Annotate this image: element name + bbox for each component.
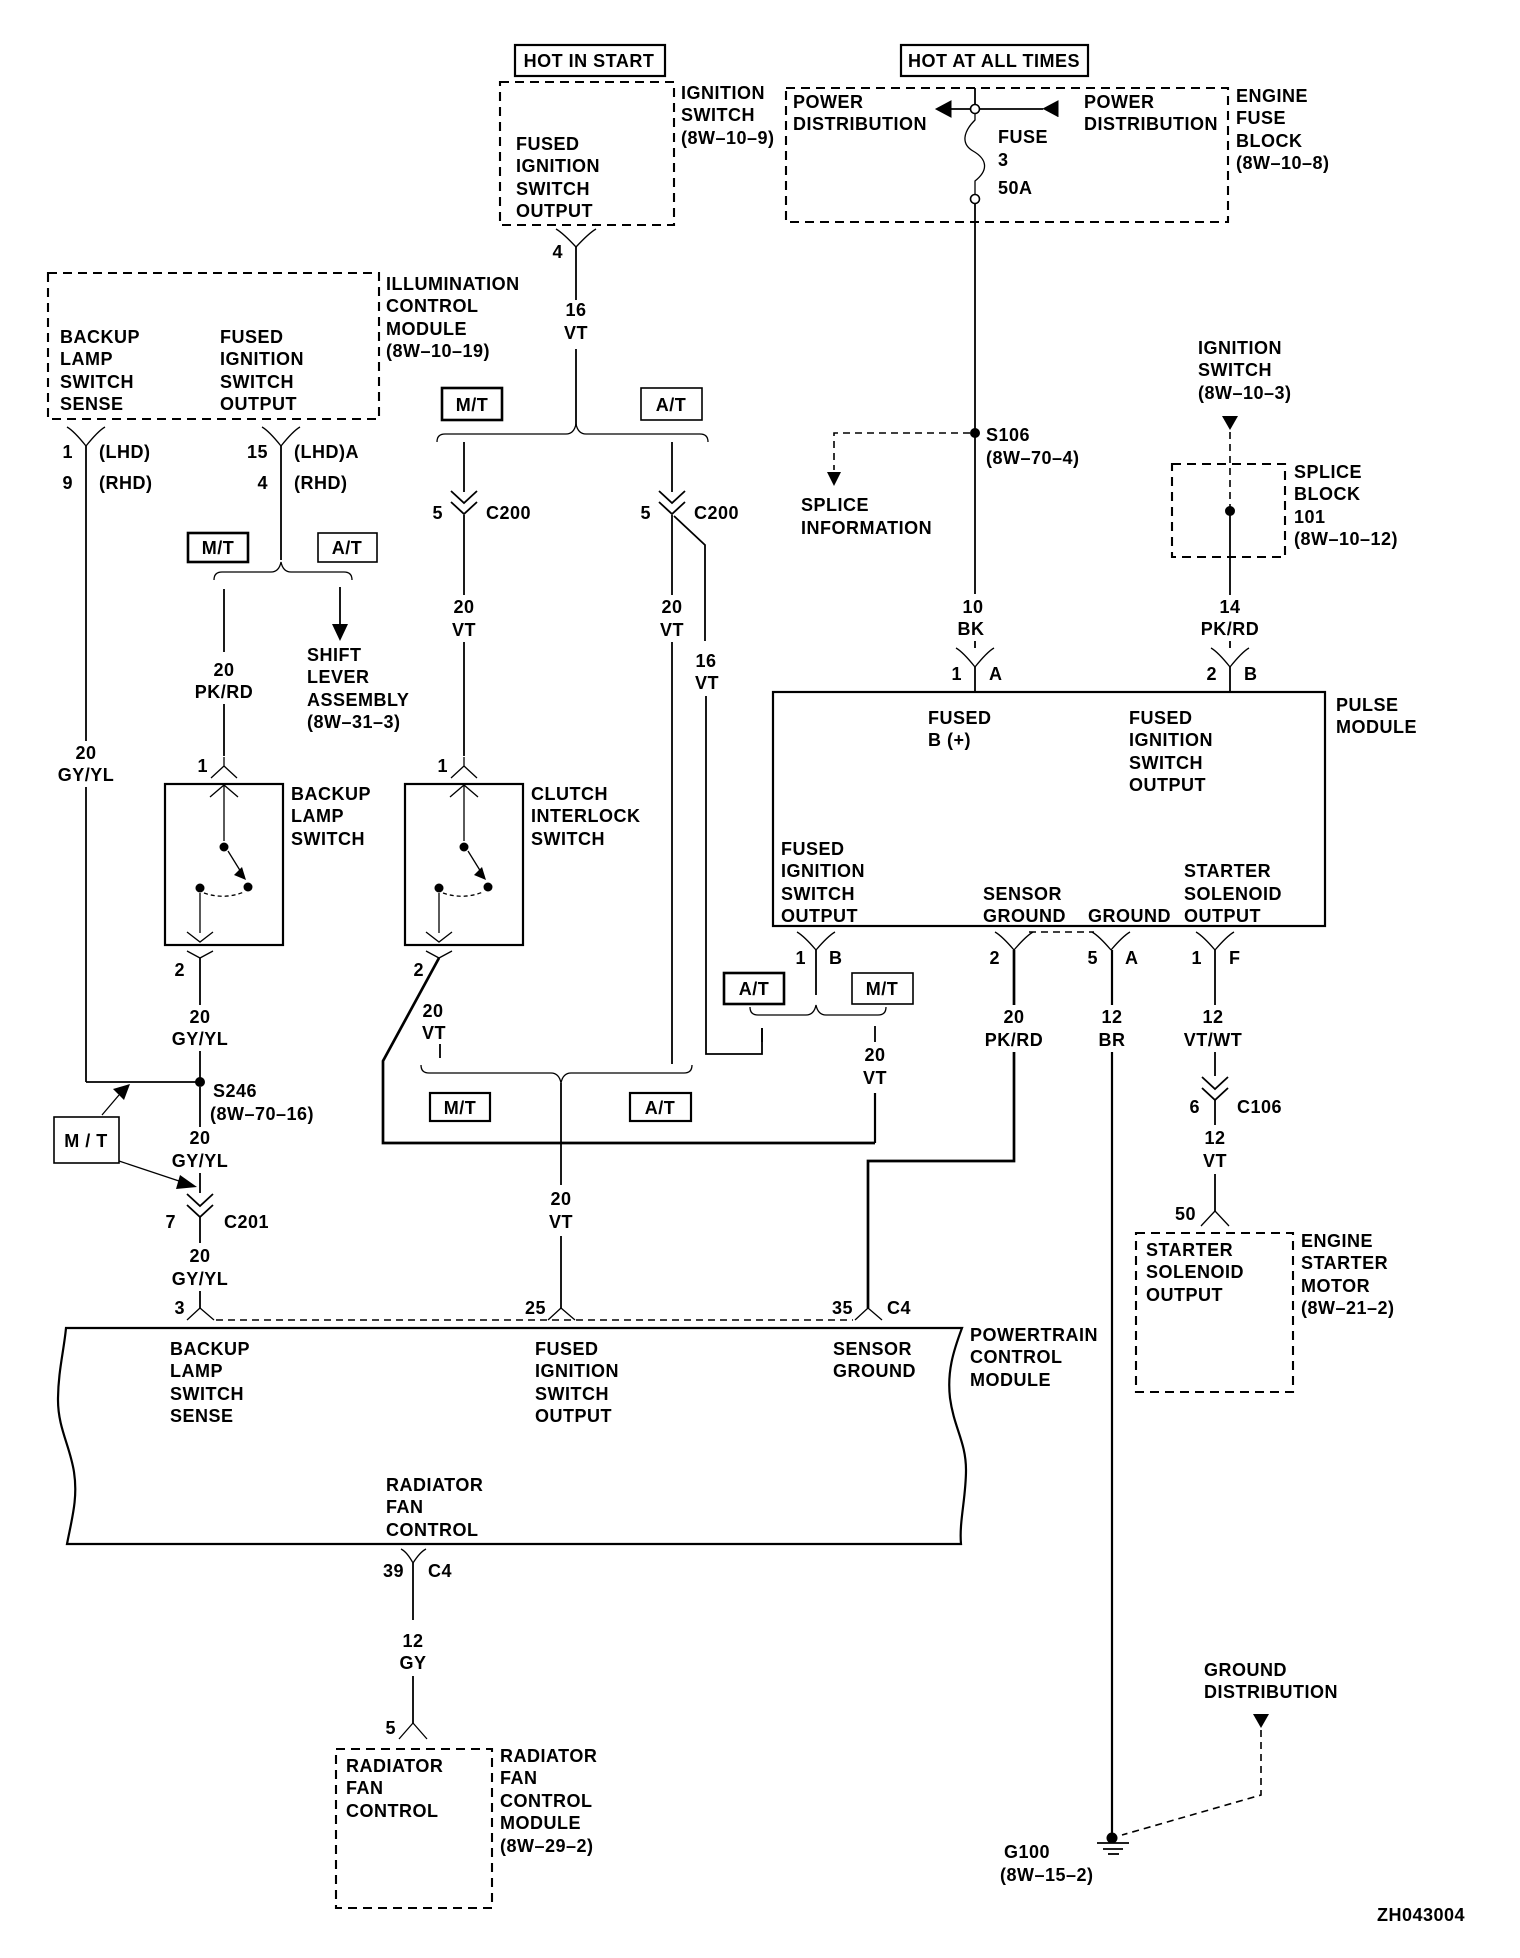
svg-text:(8W–70–4): (8W–70–4) — [986, 448, 1080, 468]
svg-text:C4: C4 — [887, 1298, 911, 1318]
label PULSE MODULE — [1336, 695, 1417, 737]
svg-text:ZH043004: ZH043004 — [1377, 1905, 1465, 1925]
label box M/T (pulse pair) — [852, 973, 913, 1004]
arrow to ground distribution — [1253, 1714, 1269, 1728]
svg-text:20: 20 — [661, 597, 682, 617]
svg-text:3: 3 — [998, 150, 1009, 170]
svg-text:OUTPUT: OUTPUT — [516, 201, 593, 221]
svg-text:(8W–70–16): (8W–70–16) — [210, 1104, 314, 1124]
svg-text:GY/YL: GY/YL — [172, 1029, 229, 1049]
wire 16 VT from pin 4 — [564, 262, 588, 425]
label box A/T (left pair) — [318, 533, 377, 562]
svg-text:SENSOR: SENSOR — [983, 884, 1062, 904]
svg-text:FAN: FAN — [500, 1768, 538, 1788]
svg-text:(8W–15–2): (8W–15–2) — [1000, 1865, 1094, 1885]
svg-text:HOT IN START: HOT IN START — [524, 51, 655, 71]
wire corner from sense line to S246 — [86, 1081, 196, 1083]
svg-text:BACKUP: BACKUP — [60, 327, 140, 347]
illumination control module dashed box — [48, 273, 379, 419]
svg-text:POWER: POWER — [793, 92, 864, 112]
svg-text:VT: VT — [660, 620, 684, 640]
svg-text:MODULE: MODULE — [1336, 717, 1417, 737]
svg-text:(RHD): (RHD) — [294, 473, 348, 493]
svg-text:GY/YL: GY/YL — [172, 1269, 229, 1289]
svg-text:20: 20 — [189, 1246, 210, 1266]
dashed leader to splice information — [801, 433, 970, 538]
svg-text:(8W–10–8): (8W–10–8) — [1236, 153, 1330, 173]
svg-text:C200: C200 — [694, 503, 739, 523]
svg-text:C200: C200 — [486, 503, 531, 523]
svg-text:FAN: FAN — [346, 1778, 384, 1798]
svg-text:12: 12 — [1204, 1128, 1225, 1148]
svg-text:CONTROL: CONTROL — [500, 1791, 593, 1811]
svg-text:DISTRIBUTION: DISTRIBUTION — [1204, 1682, 1338, 1702]
dashed leader to G100 — [1122, 1730, 1261, 1835]
svg-text:STARTER: STARTER — [1301, 1253, 1388, 1273]
svg-text:15: 15 — [247, 442, 268, 462]
connector C200 pin 5 (M/T) — [432, 491, 531, 523]
svg-text:1: 1 — [795, 948, 806, 968]
connector pin 2 B at pulse module — [1206, 648, 1257, 692]
svg-text:(8W–31–3): (8W–31–3) — [307, 712, 401, 732]
wire 16 VT from C200 diagonal — [674, 516, 762, 1054]
svg-text:A: A — [1125, 948, 1139, 968]
wire 20 VT from clutch pin 2 (M/T path) — [383, 958, 875, 1143]
svg-text:20: 20 — [1003, 1007, 1024, 1027]
svg-text:M/T: M/T — [202, 538, 235, 558]
svg-text:VT: VT — [863, 1068, 887, 1088]
svg-text:BLOCK: BLOCK — [1236, 131, 1303, 151]
label box A/T (under pin 4) — [641, 388, 702, 420]
svg-text:CONTROL: CONTROL — [386, 296, 479, 316]
wire 20 GY/YL to C201 — [172, 1087, 229, 1193]
svg-text:5: 5 — [640, 503, 651, 523]
svg-text:A/T: A/T — [332, 538, 363, 558]
splice S106 — [970, 425, 1080, 468]
powertrain control module box — [58, 1328, 966, 1544]
svg-text:SENSOR: SENSOR — [833, 1339, 912, 1359]
brace under M/T A/T (left) — [214, 562, 352, 580]
svg-text:S246: S246 — [213, 1081, 257, 1101]
connector pin 1 B below pulse module — [795, 932, 842, 995]
svg-text:IGNITION: IGNITION — [1129, 730, 1213, 750]
svg-text:FUSED: FUSED — [535, 1339, 599, 1359]
svg-text:RADIATOR: RADIATOR — [500, 1746, 597, 1766]
junction circle at fuse bottom — [971, 195, 980, 204]
radiator fan control dashed box — [336, 1749, 492, 1908]
svg-text:(LHD)A: (LHD)A — [294, 442, 359, 462]
svg-text:OUTPUT: OUTPUT — [1184, 906, 1261, 926]
svg-text:LAMP: LAMP — [170, 1361, 223, 1381]
svg-text:20: 20 — [864, 1045, 885, 1065]
svg-text:MODULE: MODULE — [500, 1813, 581, 1833]
label ENGINE STARTER MOTOR (8W-21-2) — [1301, 1231, 1395, 1318]
svg-text:B (+): B (+) — [928, 730, 971, 750]
svg-text:SWITCH: SWITCH — [1198, 360, 1272, 380]
svg-text:B: B — [1244, 664, 1258, 684]
svg-text:20: 20 — [453, 597, 474, 617]
wire 12 VT to starter — [1203, 1100, 1227, 1211]
svg-text:PK/RD: PK/RD — [195, 682, 254, 702]
wire 20 PK/RD to backup lamp switch — [195, 589, 254, 756]
label ILLUMINATION CONTROL MODULE (8W-10-19) — [386, 274, 520, 361]
wire 10 BK from fuse to S106 — [974, 203, 976, 429]
wire 20 VT A/T branch down — [660, 515, 684, 1064]
svg-text:FUSE: FUSE — [998, 127, 1048, 147]
svg-text:STARTER: STARTER — [1146, 1240, 1233, 1260]
svg-text:PULSE: PULSE — [1336, 695, 1399, 715]
connector pin 15/4 fused ignition switch output — [247, 427, 359, 560]
connector pin 1 A at pulse module — [951, 648, 1002, 692]
label HOT AT ALL TIMES — [901, 45, 1088, 76]
svg-text:10: 10 — [962, 597, 983, 617]
dashed bus along PCM top — [216, 1319, 853, 1321]
svg-text:SWITCH: SWITCH — [170, 1384, 244, 1404]
svg-text:(LHD): (LHD) — [99, 442, 150, 462]
connector pin 35 C4 at PCM — [832, 1298, 911, 1320]
svg-text:SOLENOID: SOLENOID — [1184, 884, 1282, 904]
svg-text:14: 14 — [1219, 597, 1240, 617]
connector pin 2 sensor ground — [989, 932, 1033, 968]
svg-text:FUSED: FUSED — [928, 708, 992, 728]
svg-text:GROUND: GROUND — [1204, 1660, 1287, 1680]
svg-text:SWITCH: SWITCH — [1129, 753, 1203, 773]
svg-text:SWITCH: SWITCH — [291, 829, 365, 849]
svg-text:IGNITION: IGNITION — [1198, 338, 1282, 358]
backup lamp switch box — [165, 784, 371, 945]
svg-text:IGNITION: IGNITION — [516, 156, 600, 176]
svg-text:20: 20 — [213, 660, 234, 680]
svg-text:OUTPUT: OUTPUT — [1129, 775, 1206, 795]
connector pin 2 clutch interlock switch — [413, 951, 452, 980]
svg-text:5: 5 — [1087, 948, 1098, 968]
svg-text:FUSED: FUSED — [220, 327, 284, 347]
wire 12 BR ground to G100 — [1099, 950, 1126, 1834]
svg-text:GY/YL: GY/YL — [172, 1151, 229, 1171]
svg-text:DISTRIBUTION: DISTRIBUTION — [1084, 114, 1218, 134]
svg-text:RADIATOR: RADIATOR — [346, 1756, 443, 1776]
svg-text:A/T: A/T — [656, 395, 687, 415]
label box A/T (middle pair) — [630, 1093, 691, 1121]
svg-text:20: 20 — [550, 1189, 571, 1209]
junction circle at fuse top — [971, 105, 980, 114]
svg-text:PK/RD: PK/RD — [1201, 619, 1260, 639]
svg-text:20: 20 — [189, 1128, 210, 1148]
brace splitting 16 VT into M/T and A/T — [437, 424, 708, 442]
svg-text:BACKUP: BACKUP — [170, 1339, 250, 1359]
wire 12 VT/WT starter solenoid to C106 — [1184, 950, 1243, 1076]
svg-text:(8W–29–2): (8W–29–2) — [500, 1836, 594, 1856]
dashed link pin2 to pin5 — [1029, 931, 1094, 933]
svg-text:2: 2 — [1206, 664, 1217, 684]
svg-text:C201: C201 — [224, 1212, 269, 1232]
svg-text:ENGINE: ENGINE — [1301, 1231, 1373, 1251]
label box A/T (pulse pair) — [724, 973, 784, 1004]
svg-text:ILLUMINATION: ILLUMINATION — [386, 274, 520, 294]
svg-text:SENSE: SENSE — [170, 1406, 234, 1426]
label box M / T with arrows — [54, 1084, 197, 1189]
svg-text:GY: GY — [399, 1653, 426, 1673]
svg-text:CLUTCH: CLUTCH — [531, 784, 608, 804]
svg-text:GROUND: GROUND — [1088, 906, 1171, 926]
connector pin 1/9 backup lamp switch sense — [62, 427, 152, 493]
wire 20 GY/YL backup lamp sense — [58, 457, 115, 1082]
svg-text:FUSED: FUSED — [781, 839, 845, 859]
clutch interlock switch contacts — [426, 785, 493, 942]
splice block 101 dashed box — [1172, 462, 1398, 557]
label GROUND DISTRIBUTION — [1204, 1660, 1338, 1702]
svg-text:INTERLOCK: INTERLOCK — [531, 806, 641, 826]
svg-text:12: 12 — [402, 1631, 423, 1651]
svg-text:16: 16 — [565, 300, 586, 320]
svg-text:VT/WT: VT/WT — [1184, 1030, 1243, 1050]
svg-text:INFORMATION: INFORMATION — [801, 518, 932, 538]
label ENGINE FUSE BLOCK (8W-10-8) — [1236, 86, 1330, 173]
svg-text:SWITCH: SWITCH — [781, 884, 855, 904]
svg-text:BLOCK: BLOCK — [1294, 484, 1361, 504]
svg-text:VT: VT — [564, 323, 588, 343]
svg-text:SPLICE: SPLICE — [801, 495, 869, 515]
connector C106 pin 6 — [1189, 1077, 1282, 1117]
svg-text:GROUND: GROUND — [983, 906, 1066, 926]
svg-text:FUSE: FUSE — [1236, 108, 1286, 128]
svg-text:G100: G100 — [1004, 1842, 1050, 1862]
stub wire A/T side under brace — [761, 1028, 763, 1042]
arrow from ignition switch — [1222, 416, 1238, 430]
svg-text:1: 1 — [951, 664, 962, 684]
connector C200 pin 5 (A/T) — [640, 491, 739, 523]
svg-text:5: 5 — [385, 1718, 396, 1738]
svg-text:(8W–10–12): (8W–10–12) — [1294, 529, 1398, 549]
svg-text:12: 12 — [1101, 1007, 1122, 1027]
svg-text:50A: 50A — [998, 178, 1033, 198]
svg-text:LEVER: LEVER — [307, 667, 370, 687]
svg-text:CONTROL: CONTROL — [386, 1520, 479, 1540]
svg-text:A: A — [989, 664, 1003, 684]
connector pin 50 starter solenoid — [1175, 1204, 1229, 1226]
svg-text:POWERTRAIN: POWERTRAIN — [970, 1325, 1098, 1345]
svg-text:GY/YL: GY/YL — [58, 765, 115, 785]
svg-text:M/T: M/T — [866, 979, 899, 999]
svg-text:101: 101 — [1294, 507, 1326, 527]
connector pin 39 C4 below PCM — [383, 1549, 452, 1620]
svg-text:FUSED: FUSED — [516, 134, 580, 154]
pulse module box — [773, 692, 1325, 926]
svg-text:5: 5 — [432, 503, 443, 523]
connector pin 1 backup lamp switch — [197, 756, 237, 778]
svg-text:ENGINE: ENGINE — [1236, 86, 1308, 106]
svg-text:1: 1 — [197, 756, 208, 776]
wire 12 GY — [399, 1631, 426, 1723]
svg-text:DISTRIBUTION: DISTRIBUTION — [793, 114, 927, 134]
svg-text:25: 25 — [525, 1298, 546, 1318]
svg-text:(8W–10–19): (8W–10–19) — [386, 341, 490, 361]
connector pin 25 at PCM — [525, 1298, 575, 1320]
svg-text:M / T: M / T — [64, 1131, 108, 1151]
svg-text:M/T: M/T — [444, 1098, 477, 1118]
wire M/T branch to C200 — [463, 442, 465, 492]
splice S246 — [195, 1077, 314, 1124]
svg-text:IGNITION: IGNITION — [535, 1361, 619, 1381]
clutch interlock switch box — [405, 784, 641, 945]
wire into fuse block top — [974, 88, 976, 105]
svg-text:1: 1 — [437, 756, 448, 776]
connector pin 2 backup lamp switch — [174, 951, 213, 980]
connector C201 pin 7 — [165, 1194, 269, 1232]
wire 20 GY/YL to PCM pin 3 — [172, 1217, 229, 1308]
connector pin 4 (fused ignition switch output) — [552, 229, 596, 262]
svg-text:2: 2 — [174, 960, 185, 980]
svg-text:(8W–10–9): (8W–10–9) — [681, 128, 775, 148]
svg-text:VT: VT — [549, 1212, 573, 1232]
brace splitting pin B to A/T and M/T — [750, 1005, 886, 1015]
svg-text:PK/RD: PK/RD — [985, 1030, 1044, 1050]
svg-text:VT: VT — [1203, 1151, 1227, 1171]
svg-text:CONTROL: CONTROL — [346, 1801, 439, 1821]
svg-text:OUTPUT: OUTPUT — [535, 1406, 612, 1426]
label IGNITION SWITCH (8W-10-3) — [1198, 338, 1292, 403]
connector pin 3 at PCM — [174, 1298, 214, 1320]
svg-text:CONTROL: CONTROL — [970, 1347, 1063, 1367]
svg-text:BACKUP: BACKUP — [291, 784, 371, 804]
svg-text:POWER: POWER — [1084, 92, 1155, 112]
wire A/T branch to C200 — [671, 442, 673, 492]
backup lamp switch contacts — [187, 785, 253, 942]
label box M/T (middle pair) — [430, 1093, 490, 1121]
wire 20 VT to clutch interlock switch — [452, 515, 476, 756]
engine fuse block dashed box — [786, 88, 1228, 222]
svg-text:SWITCH: SWITCH — [681, 105, 755, 125]
svg-text:4: 4 — [552, 242, 563, 262]
svg-text:1: 1 — [62, 442, 73, 462]
svg-text:BK: BK — [958, 619, 985, 639]
wire 20 VT to PCM pin 25 — [549, 1083, 573, 1308]
svg-text:IGNITION: IGNITION — [681, 83, 765, 103]
svg-text:SWITCH: SWITCH — [531, 829, 605, 849]
connector pin 1 clutch interlock switch — [437, 756, 477, 778]
wire 14 PK/RD — [1201, 515, 1260, 648]
svg-text:MODULE: MODULE — [970, 1370, 1051, 1390]
svg-text:IGNITION: IGNITION — [220, 349, 304, 369]
svg-text:2: 2 — [413, 960, 424, 980]
svg-text:SPLICE: SPLICE — [1294, 462, 1362, 482]
svg-text:SWITCH: SWITCH — [220, 372, 294, 392]
svg-text:39: 39 — [383, 1561, 404, 1581]
svg-text:C4: C4 — [428, 1561, 452, 1581]
svg-text:OUTPUT: OUTPUT — [1146, 1285, 1223, 1305]
svg-text:SWITCH: SWITCH — [535, 1384, 609, 1404]
svg-text:VT: VT — [452, 620, 476, 640]
svg-text:SENSE: SENSE — [60, 394, 124, 414]
svg-text:M/T: M/T — [456, 395, 489, 415]
svg-text:VT: VT — [422, 1023, 446, 1043]
svg-text:2: 2 — [989, 948, 1000, 968]
brace gathering M/T A/T into PCM pin 25 wire — [421, 1065, 692, 1083]
svg-text:7: 7 — [165, 1212, 176, 1232]
svg-text:IGNITION: IGNITION — [781, 861, 865, 881]
svg-text:SWITCH: SWITCH — [60, 372, 134, 392]
svg-text:20: 20 — [75, 743, 96, 763]
fuse 3 50A element — [965, 113, 1048, 198]
svg-text:16: 16 — [695, 651, 716, 671]
svg-text:SHIFT: SHIFT — [307, 645, 362, 665]
svg-text:MOTOR: MOTOR — [1301, 1276, 1370, 1296]
svg-text:LAMP: LAMP — [291, 806, 344, 826]
connector pin 1 F starter solenoid output — [1191, 932, 1240, 968]
svg-text:ASSEMBLY: ASSEMBLY — [307, 690, 409, 710]
svg-text:LAMP: LAMP — [60, 349, 113, 369]
svg-text:BR: BR — [1099, 1030, 1126, 1050]
label POWERTRAIN CONTROL MODULE — [970, 1325, 1098, 1390]
svg-text:6: 6 — [1189, 1097, 1200, 1117]
connector pin 5 A ground — [1087, 932, 1138, 968]
svg-text:S106: S106 — [986, 425, 1030, 445]
splice dot in splice block — [1225, 506, 1235, 516]
svg-text:SOLENOID: SOLENOID — [1146, 1262, 1244, 1282]
svg-text:SWITCH: SWITCH — [516, 179, 590, 199]
svg-text:OUTPUT: OUTPUT — [220, 394, 297, 414]
svg-text:(8W–21–2): (8W–21–2) — [1301, 1298, 1395, 1318]
svg-text:B: B — [829, 948, 843, 968]
connector pin 5 radiator fan control — [385, 1718, 427, 1739]
power distribution bus arrows — [936, 101, 1058, 117]
svg-text:(RHD): (RHD) — [99, 473, 153, 493]
svg-text:STARTER: STARTER — [1184, 861, 1271, 881]
wire 20 PK/RD sensor ground to PCM pin 35 — [868, 950, 1043, 1308]
svg-text:FAN: FAN — [386, 1497, 424, 1517]
label box M/T (left pair) — [188, 533, 248, 562]
wire 10 BK below S106 — [958, 437, 985, 648]
svg-text:A/T: A/T — [739, 979, 770, 999]
svg-text:OUTPUT: OUTPUT — [781, 906, 858, 926]
svg-text:RADIATOR: RADIATOR — [386, 1475, 483, 1495]
svg-text:20: 20 — [189, 1007, 210, 1027]
svg-text:A/T: A/T — [645, 1098, 676, 1118]
stub wire M/T side under brace and 20 VT — [863, 1026, 887, 1088]
svg-text:35: 35 — [832, 1298, 853, 1318]
label RADIATOR FAN CONTROL MODULE (8W-29-2) — [500, 1746, 597, 1856]
svg-text:4: 4 — [257, 473, 268, 493]
ignition switch dashed box (8W-10-9) — [500, 82, 674, 225]
wire 20 GY/YL to S246 — [172, 967, 229, 1082]
label box M/T (under pin 4) — [442, 388, 502, 420]
svg-text:1: 1 — [1191, 948, 1202, 968]
label IGNITION SWITCH (8W-10-9) — [681, 83, 775, 148]
svg-text:FUSED: FUSED — [1129, 708, 1193, 728]
dashed wire to splice block — [1229, 432, 1231, 507]
svg-text:20: 20 — [422, 1001, 443, 1021]
label HOT IN START — [515, 45, 665, 76]
svg-text:GROUND: GROUND — [833, 1361, 916, 1381]
svg-text:12: 12 — [1202, 1007, 1223, 1027]
svg-text:50: 50 — [1175, 1204, 1196, 1224]
svg-text:MODULE: MODULE — [386, 319, 467, 339]
ground G100 — [1000, 1833, 1129, 1886]
svg-text:C106: C106 — [1237, 1097, 1282, 1117]
svg-text:HOT AT ALL TIMES: HOT AT ALL TIMES — [908, 51, 1080, 71]
starter solenoid output dashed box — [1136, 1233, 1293, 1392]
svg-text:VT: VT — [695, 673, 719, 693]
svg-text:9: 9 — [62, 473, 73, 493]
svg-text:3: 3 — [174, 1298, 185, 1318]
svg-text:F: F — [1229, 948, 1241, 968]
arrow to shift lever assembly — [307, 587, 409, 732]
svg-text:(8W–10–3): (8W–10–3) — [1198, 383, 1292, 403]
